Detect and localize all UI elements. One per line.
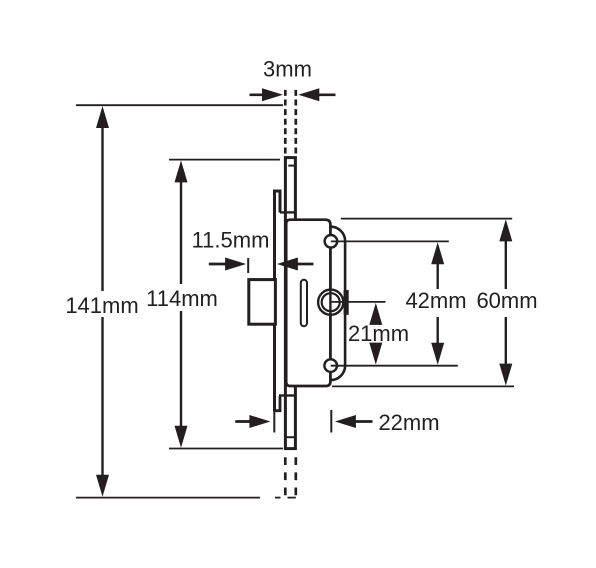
dim 21mm arrowhead up [369,303,382,325]
dim 141mm dimension line [101,126,103,291]
case bottom connector line [279,394,294,396]
dim 22mm left tick [273,412,275,433]
case right edge line [329,227,331,380]
faceplate projection dashed lines bottom [284,457,287,495]
dim 141mm bottom extension dashes [275,497,281,499]
dim 42mm dimension line [437,263,439,289]
latch bolt [249,280,276,325]
follower inner circle [322,293,340,311]
svg-text:22mm: 22mm [378,410,439,435]
dim 11.5mm left arrow [209,263,226,266]
dim 60mm dimension line [505,240,507,289]
svg-text:21mm: 21mm [348,321,409,346]
dim 141mm top extension line [76,104,283,106]
60mm top extension line [341,218,512,220]
dim 60mm arrowhead down [499,364,512,386]
dim 11.5mm right arrow [277,258,298,271]
case flange rim [330,227,345,380]
dim 114mm arrowhead up [175,160,188,182]
svg-text:60mm: 60mm [476,288,537,313]
case body [286,220,330,386]
follower boss [344,290,349,315]
faceplate projection dashed lines top [284,90,287,156]
dim 3mm left arrow [250,94,264,97]
dim 42mm arrowhead down [431,343,444,365]
svg-text:42mm: 42mm [405,288,466,313]
screw top circle [325,235,338,248]
svg-text:11.5mm: 11.5mm [192,227,270,252]
follower centre line / 21mm top extension [331,301,386,303]
dim 141mm arrowhead down [96,475,109,497]
dim 114mm dimension line [180,180,182,284]
svg-text:114mm: 114mm [146,286,218,311]
dim 3mm right arrow [298,88,319,101]
dim 114mm bottom extension line [169,448,283,450]
svg-text:3mm: 3mm [263,57,312,82]
screw bottom circle [324,359,337,372]
screw bottom centre line / 42mm bottom extension [331,365,458,367]
dim 11.5mm tick [247,258,249,273]
dim 42mm arrowhead up [431,242,444,264]
dim 22mm right arrow [335,415,356,428]
dim 141mm arrowhead up [96,106,109,128]
oval slot [301,280,307,326]
screw top centre line / 42mm top extension [331,240,449,242]
backplate [275,191,281,412]
follower outer circle [318,290,343,315]
faceplate [285,158,295,449]
faceplate inner tick bottom [286,436,294,438]
svg-text:141mm: 141mm [65,293,138,318]
dim 22mm right tick [330,410,332,433]
dim 114mm top extension line [169,159,280,161]
dim 60mm arrowhead up [499,219,512,241]
faceplate inner tick top [288,165,294,167]
dim 141mm bottom extension line [76,497,260,499]
case top connector line [280,211,295,213]
dim 22mm left arrow [235,420,251,423]
dim 114mm arrowhead down [175,426,188,448]
60mm bottom extension line [332,385,514,387]
dim 21mm arrowhead down [369,343,382,365]
